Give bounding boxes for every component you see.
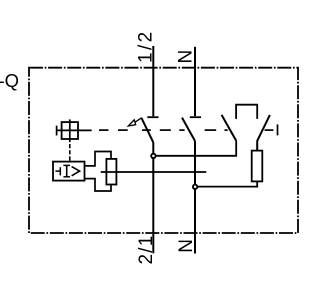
fixed contact bar pole N [190, 116, 201, 118]
test button square [62, 122, 78, 139]
svg-text:N: N [175, 50, 196, 64]
wire: pole 1 lower conductor (to terminal 2/1) [152, 142, 154, 253]
fixed contact bar pole 1 [147, 116, 158, 118]
node A junction [151, 154, 155, 158]
switch blade pole N [182, 118, 195, 141]
trip coil wire top [256, 141, 258, 151]
node B junction [193, 185, 197, 189]
svg-text:N: N [176, 239, 197, 253]
release linkage bracket top [85, 152, 112, 166]
wire node A to trip relay left contact [153, 141, 236, 156]
mechanical linkage dashed line [99, 129, 273, 131]
wire: pole 1 incoming line (terminal 1/2) [152, 46, 154, 116]
release box symbol I [66, 165, 68, 176]
wire through thermal element [101, 171, 207, 173]
release arrow on pole 1 blade [128, 120, 135, 126]
trip coil [252, 151, 263, 182]
wire: pole N lower conductor (to terminal N bottom) [194, 141, 196, 254]
dashed link test button to release box [69, 144, 71, 161]
test button cross vertical [69, 119, 71, 142]
trip relay right blade [257, 115, 270, 141]
release box symbol > [72, 167, 80, 176]
wire coil bottom to node B [195, 181, 257, 186]
switch blade pole 1 [141, 118, 153, 143]
release box symbol dash [55, 170, 59, 172]
svg-text:-Q: -Q [0, 70, 19, 91]
release box symbol bar [59, 167, 61, 175]
trip relay bracket [236, 105, 257, 119]
wire: pole N incoming line (terminal N top) [194, 47, 196, 116]
release linkage bracket bottom [85, 179, 112, 191]
test button terminal tick [56, 126, 58, 136]
linkage end stop tick [277, 124, 279, 135]
trip relay left blade [222, 115, 237, 141]
boundary box of device -Q (dash-dot) [29, 68, 298, 233]
test button wire [57, 129, 92, 131]
overcurrent release box [53, 162, 85, 181]
thermal element rectangle [106, 159, 116, 185]
